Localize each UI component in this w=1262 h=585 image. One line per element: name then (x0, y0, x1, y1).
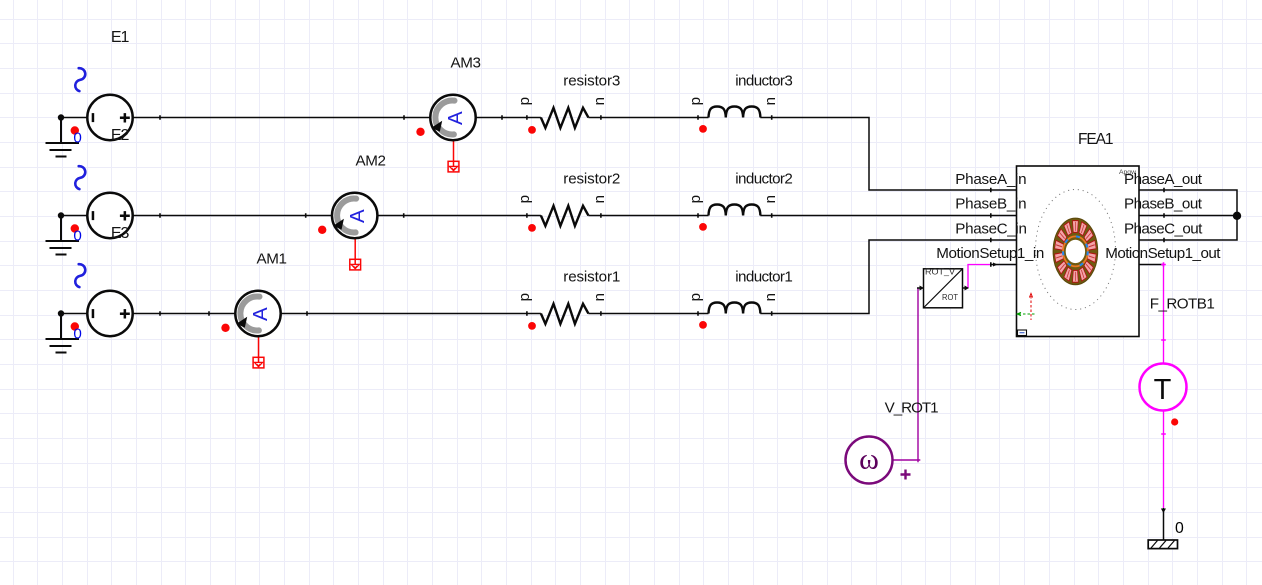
svg-text:ω: ω (859, 443, 879, 476)
svg-text:AM1: AM1 (257, 251, 288, 268)
svg-text:resistor1: resistor1 (563, 268, 620, 285)
svg-text:AM3: AM3 (451, 55, 482, 72)
svg-text:inductor3: inductor3 (735, 72, 793, 89)
svg-text:inductor1: inductor1 (735, 268, 793, 285)
svg-text:PhaseC_in: PhaseC_in (955, 220, 1027, 237)
svg-text:PhaseB_out: PhaseB_out (1124, 196, 1203, 213)
svg-text:T: T (1154, 374, 1172, 406)
svg-text:AM2: AM2 (356, 153, 387, 170)
svg-text:PhaseA_in: PhaseA_in (955, 171, 1026, 188)
svg-text:PhaseC_out: PhaseC_out (1124, 220, 1203, 237)
svg-text:E1: E1 (111, 29, 130, 46)
svg-text:ROT_V: ROT_V (925, 268, 956, 277)
svg-text:FEA1: FEA1 (1078, 131, 1114, 148)
svg-text:V_ROT1: V_ROT1 (885, 400, 939, 417)
svg-text:0: 0 (1175, 520, 1184, 537)
svg-text:resistor2: resistor2 (563, 170, 620, 187)
svg-text:PhaseA_out: PhaseA_out (1124, 171, 1203, 188)
svg-text:ROT: ROT (942, 293, 958, 302)
svg-text:MotionSetup1_out: MotionSetup1_out (1105, 245, 1221, 262)
svg-text:F_ROTB1: F_ROTB1 (1150, 296, 1215, 313)
svg-text:resistor3: resistor3 (563, 72, 620, 89)
svg-text:E2: E2 (111, 127, 130, 144)
svg-text:PhaseB_in: PhaseB_in (955, 196, 1026, 213)
svg-text:E3: E3 (111, 225, 130, 242)
svg-text:MotionSetup1_in: MotionSetup1_in (936, 245, 1044, 262)
svg-text:inductor2: inductor2 (735, 170, 793, 187)
